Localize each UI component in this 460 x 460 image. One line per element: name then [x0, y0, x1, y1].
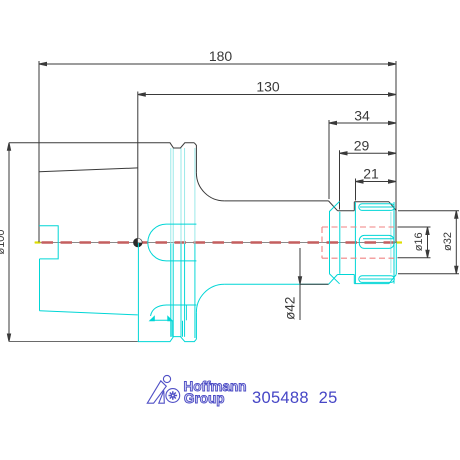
nut left face top: [353, 202, 355, 211]
flange to body fillet bottom cyan: [196, 284, 224, 313]
body step chamfer top: [329, 201, 338, 211]
taper shank bottom edge cyan: [40, 311, 138, 315]
svg-text:34: 34: [354, 108, 370, 124]
groove edge section line 1: [170, 148, 172, 337]
bore step section cyan: [39, 226, 58, 259]
svg-text:ø42: ø42: [283, 297, 298, 320]
centerline yellow end tick left: [35, 241, 41, 243]
dimension 34 extension line: [328, 120, 330, 199]
nut top edge: [354, 201, 389, 203]
dimension 21 line: [356, 180, 397, 183]
nut bottom edge cyan: [354, 283, 389, 285]
svg-text:ø100: ø100: [0, 229, 7, 254]
groove wall right cyan: [182, 321, 184, 337]
shank left face bottom cyan: [39, 259, 41, 311]
dia100 top extension and flange top edge with V-notch: [9, 143, 194, 148]
hidden bore top red dashed: [322, 226, 394, 228]
flange internal groove line cyan: [150, 316, 173, 320]
gauge line bottom cyan: [137, 243, 139, 342]
groove inner edge short cyan: [185, 305, 187, 320]
collet cone vertical 1 cyan: [329, 211, 331, 274]
taper shank top edge: [39, 168, 138, 172]
dimension dia42 leader: [298, 248, 328, 320]
groove wall left cyan: [171, 321, 173, 337]
nut slot middle cyan: [359, 235, 394, 248]
flange bottom edge with V-notch cyan: [138, 337, 197, 342]
gauge stadium slot cyan: [148, 224, 197, 261]
nut slot bottom cyan: [359, 276, 395, 283]
nut left face bottom cyan: [353, 275, 355, 284]
groove edge section line 4: [184, 148, 186, 337]
hidden bore left edge red dashed: [321, 227, 323, 258]
body top edge: [224, 200, 328, 202]
hidden bore bottom red dashed: [322, 257, 394, 259]
right extension line and nut right face: [395, 61, 397, 243]
dimension 29 extension line: [339, 150, 341, 209]
collet cone chamfer bottom cyan: [329, 274, 339, 284]
gauge point dot: [134, 239, 142, 247]
nut chamfer bottom cyan: [389, 275, 396, 284]
neck flat top: [338, 210, 355, 212]
svg-text:ø32: ø32: [442, 232, 454, 251]
body step chamfer bottom cyan: [329, 275, 338, 285]
flange internal arc cyan: [151, 305, 197, 316]
collet sleeve left edge cyan: [354, 202, 356, 284]
nut chamfer top: [389, 202, 396, 211]
dia32 extension lines: [398, 210, 459, 212]
dimension dia32 line: [455, 211, 458, 274]
centerline yellow end tick right: [396, 241, 402, 243]
groove edge section line 2: [172, 148, 174, 337]
svg-text:180: 180: [209, 48, 233, 64]
dimension 21 extension line: [355, 179, 357, 201]
dimension dia16 line: [426, 227, 429, 258]
gauge plane extension line: [137, 92, 139, 243]
svg-text:Group: Group: [184, 391, 225, 406]
svg-text:21: 21: [363, 166, 379, 182]
dimension 180 line: [39, 62, 396, 65]
groove edge section line 3: [180, 148, 182, 337]
dimension dia100 line: [7, 143, 10, 342]
flange face section line: [194, 148, 196, 338]
Hoffmann Group logo icon: [147, 375, 179, 403]
svg-text:130: 130: [256, 79, 280, 95]
flange to body fillet top: [196, 173, 224, 201]
svg-text:ø16: ø16: [413, 232, 425, 251]
dimension 34 line: [329, 121, 396, 124]
flange right face bottom cyan: [195, 313, 197, 339]
nut right face bottom cyan: [395, 243, 397, 275]
left extension line and shank left face: [38, 61, 40, 242]
svg-text:305488 25: 305488 25: [252, 389, 338, 407]
centerline thin gray: [35, 242, 402, 244]
body bottom edge cyan: [224, 283, 328, 285]
nut slot top cyan: [359, 204, 395, 211]
centerline red dashes: [42, 241, 397, 244]
groove section lines lower half brighter: [171, 244, 195, 339]
collet sleeve right edge cyan: [393, 202, 395, 284]
collet cone chamfer top cyan: [329, 201, 339, 211]
dia16 extension lines: [398, 226, 431, 228]
svg-text:29: 29: [354, 138, 370, 154]
flange top right corner and right face: [194, 143, 196, 173]
dia100 bottom extension line: [9, 341, 138, 343]
neck flat bottom cyan: [338, 274, 355, 276]
dimension 130 line: [138, 93, 396, 96]
collet nose section line: [390, 212, 392, 273]
dimension 29 line: [340, 152, 397, 155]
collet cone vertical 2 cyan: [339, 212, 341, 274]
